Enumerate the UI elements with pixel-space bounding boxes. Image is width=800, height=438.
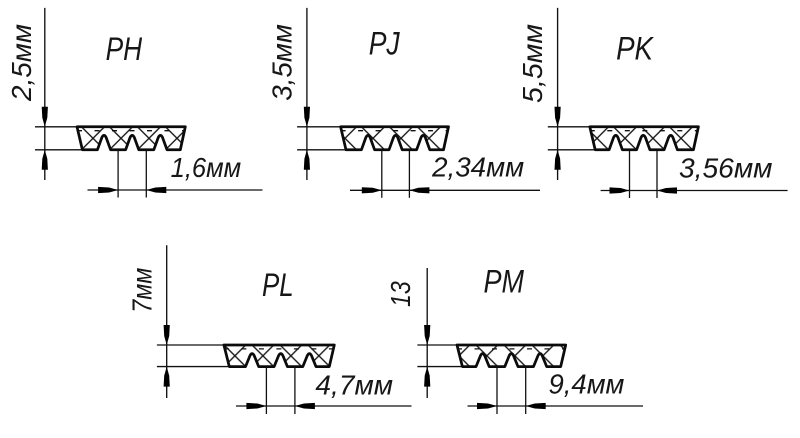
svg-text:3,5мм: 3,5мм xyxy=(267,24,298,101)
svg-text:1,6мм: 1,6мм xyxy=(171,152,242,183)
svg-text:7мм: 7мм xyxy=(127,268,158,313)
svg-text:PH: PH xyxy=(106,31,143,67)
svg-text:PL: PL xyxy=(262,267,294,303)
svg-text:PM: PM xyxy=(484,263,525,299)
svg-text:5,5мм: 5,5мм xyxy=(517,24,548,103)
svg-text:PJ: PJ xyxy=(369,26,401,62)
svg-text:4,7мм: 4,7мм xyxy=(315,369,393,400)
svg-text:PK: PK xyxy=(616,30,654,66)
svg-text:3,56мм: 3,56мм xyxy=(679,152,773,183)
svg-text:2,5мм: 2,5мм xyxy=(6,24,37,102)
svg-text:13: 13 xyxy=(385,281,416,307)
svg-text:2,34мм: 2,34мм xyxy=(431,152,524,183)
svg-text:9,4мм: 9,4мм xyxy=(549,369,625,400)
